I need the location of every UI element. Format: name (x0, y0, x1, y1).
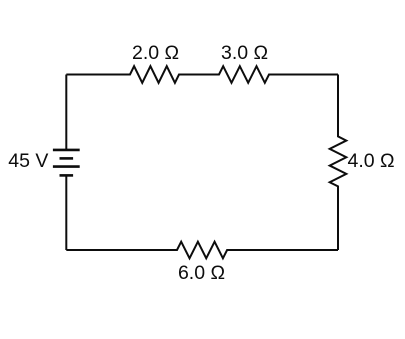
svg-text:6.0 Ω: 6.0 Ω (178, 262, 225, 284)
svg-text:3.0 Ω: 3.0 Ω (221, 42, 268, 64)
svg-text:45 V: 45 V (8, 150, 48, 172)
svg-text:2.0 Ω: 2.0 Ω (132, 42, 179, 64)
svg-text:4.0 Ω: 4.0 Ω (348, 150, 395, 172)
